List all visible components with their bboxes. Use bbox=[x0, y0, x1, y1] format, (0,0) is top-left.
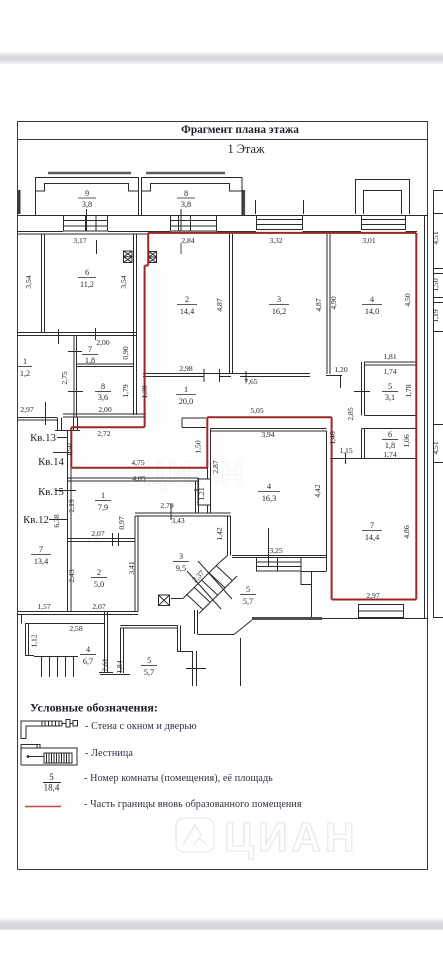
red jog bbox=[145, 265, 149, 267]
rooms 3/4 divider wall bbox=[327, 234, 330, 374]
svg-text:4,90: 4,90 bbox=[329, 296, 338, 309]
room 5 (3,1) top wall bbox=[364, 362, 417, 365]
svg-text:3,01: 3,01 bbox=[362, 236, 375, 245]
entry diagonal bbox=[234, 620, 252, 635]
svg-text:ЦИАН: ЦИАН bbox=[224, 814, 359, 860]
svg-text:4,85: 4,85 bbox=[132, 474, 145, 483]
room 16,3 left wall lower bbox=[208, 505, 211, 513]
svg-text:5,05: 5,05 bbox=[250, 406, 263, 415]
room 5,7 inner wall bbox=[121, 628, 124, 673]
stair top connectors bbox=[220, 556, 228, 563]
svg-text:1,20: 1,20 bbox=[334, 365, 347, 374]
svg-text:0,90: 0,90 bbox=[121, 346, 130, 359]
svg-text:1: 1 bbox=[101, 491, 105, 500]
svg-text:1,74: 1,74 bbox=[383, 450, 396, 459]
tick 2,79 bbox=[170, 504, 172, 520]
ladder 3,25 bbox=[257, 558, 302, 572]
legend wall symbol bbox=[21, 720, 78, 739]
svg-text:Кв.15: Кв.15 bbox=[38, 486, 64, 498]
svg-text:3,8: 3,8 bbox=[181, 200, 191, 209]
dark parapet line bbox=[252, 617, 322, 620]
wall stub right of corridor bbox=[326, 375, 342, 377]
balcony 9 slab dark top line bbox=[48, 172, 131, 174]
corridor step wall bbox=[182, 418, 206, 428]
red bottom edge room 14,4 bbox=[332, 599, 417, 601]
svg-text:5: 5 bbox=[388, 382, 392, 391]
svg-text:7,9: 7,9 bbox=[98, 503, 108, 512]
room 5,7 left wall bbox=[105, 612, 108, 673]
svg-text:3,54: 3,54 bbox=[24, 275, 33, 288]
svg-text:4,50: 4,50 bbox=[403, 293, 412, 306]
svg-text:1,15: 1,15 bbox=[339, 446, 352, 455]
wall y513 bbox=[135, 513, 231, 516]
tick 1,15 at red bbox=[330, 453, 346, 464]
svg-text:1,19: 1,19 bbox=[431, 309, 440, 322]
red vertical x207 bbox=[206, 417, 208, 467]
duct tick bbox=[194, 489, 198, 491]
rooms 2/3 divider wall bbox=[230, 234, 233, 374]
bottom outer wall right bbox=[322, 618, 428, 620]
svg-text:2,07: 2,07 bbox=[91, 529, 104, 538]
red left vertical upper bbox=[147, 233, 149, 266]
stair comb teeth bbox=[42, 657, 74, 678]
svg-text:1,57: 1,57 bbox=[37, 602, 50, 611]
svg-text:3,94: 3,94 bbox=[261, 430, 274, 439]
room 5 bottom wall bbox=[365, 415, 417, 417]
svg-text:4,87: 4,87 bbox=[314, 298, 323, 311]
title separator line bbox=[18, 139, 428, 141]
stair comb top bbox=[34, 656, 78, 658]
svg-text:3,43: 3,43 bbox=[171, 516, 184, 525]
room 2 (5,0) top wall bbox=[68, 539, 136, 542]
svg-text:Кв.12: Кв.12 bbox=[23, 514, 49, 526]
door ticks on wall bbox=[68, 352, 83, 392]
svg-text:3,17: 3,17 bbox=[73, 236, 86, 245]
svg-text:18,4: 18,4 bbox=[44, 783, 60, 793]
watermarks bbox=[142, 455, 359, 860]
svg-text:5: 5 bbox=[147, 656, 151, 665]
room 16,3 top wall bbox=[211, 429, 327, 432]
balcony 8 label tick bbox=[180, 209, 182, 231]
room 6 bottom wall bbox=[18, 333, 137, 336]
svg-text:2,58: 2,58 bbox=[69, 624, 82, 633]
svg-text:2,84: 2,84 bbox=[181, 236, 194, 245]
ladder dim line bbox=[268, 528, 270, 566]
corner stub left bbox=[21, 615, 23, 624]
svg-text:3,8: 3,8 bbox=[82, 200, 92, 209]
svg-text:3: 3 bbox=[277, 295, 281, 304]
legend stairs symbol bbox=[21, 745, 77, 766]
svg-text:1,46: 1,46 bbox=[328, 431, 337, 444]
neighbour ticks bbox=[434, 214, 443, 618]
svg-text:7,65: 7,65 bbox=[244, 377, 257, 386]
svg-text:Кв.14: Кв.14 bbox=[38, 456, 64, 468]
svg-text:3,54: 3,54 bbox=[119, 275, 128, 288]
corridor door ticks bbox=[204, 369, 246, 382]
stair flight side 2 bbox=[199, 576, 237, 614]
room 16,3 right wall bbox=[326, 431, 328, 556]
svg-text:5,0: 5,0 bbox=[94, 580, 104, 589]
room 6 left wall bbox=[42, 234, 45, 332]
svg-text:2,97: 2,97 bbox=[20, 405, 33, 414]
svg-text:1,39: 1,39 bbox=[140, 385, 149, 398]
svg-text:2: 2 bbox=[97, 568, 101, 577]
door tick room 5 left wall bbox=[354, 391, 370, 393]
vent X-box in room 2 bbox=[149, 252, 157, 263]
svg-text:2,61: 2,61 bbox=[101, 658, 110, 671]
svg-text:1,2: 1,2 bbox=[20, 369, 30, 378]
svg-text:5: 5 bbox=[246, 585, 250, 594]
tick under 2,84 bbox=[180, 243, 182, 254]
balcony 9 label tick bbox=[86, 209, 88, 231]
balcony 8 outline bbox=[142, 178, 243, 216]
duct box bbox=[198, 479, 211, 505]
svg-text:4,51: 4,51 bbox=[431, 231, 440, 244]
legend bbox=[21, 701, 302, 811]
svg-text:14,0: 14,0 bbox=[365, 307, 379, 316]
room 16,3 left wall upper bbox=[208, 429, 211, 480]
red vertical x71 bbox=[70, 427, 72, 467]
page frame bbox=[18, 122, 428, 870]
room 1 (7,9) top wall bbox=[68, 478, 199, 481]
porch ladder below red room bbox=[359, 605, 404, 618]
lobby right wall double bbox=[68, 430, 72, 612]
svg-text:- Номер комнаты (помещения), е: - Номер комнаты (помещения), её площадь bbox=[84, 773, 273, 784]
svg-text:ЦИАН: ЦИАН bbox=[142, 455, 247, 491]
svg-text:1,12: 1,12 bbox=[30, 634, 39, 647]
divider rooms 7/8 bbox=[77, 364, 134, 367]
svg-text:13,4: 13,4 bbox=[34, 557, 48, 566]
neighbour stub top bbox=[434, 190, 443, 192]
svg-text:9: 9 bbox=[85, 189, 89, 198]
bottom window cross tick bbox=[186, 668, 206, 670]
legend red line symbol bbox=[25, 806, 61, 808]
svg-text:16,3: 16,3 bbox=[262, 494, 276, 503]
balcony 9 window bay bbox=[64, 215, 108, 231]
balcony 9 parapet stepped line bbox=[36, 184, 139, 192]
svg-text:7: 7 bbox=[39, 545, 43, 554]
svg-text:2,00: 2,00 bbox=[98, 405, 111, 414]
svg-text:3: 3 bbox=[179, 552, 183, 561]
balcony 8 slab dark top line bbox=[146, 172, 225, 174]
svg-text:11,2: 11,2 bbox=[80, 280, 94, 289]
svg-text:2,98: 2,98 bbox=[179, 364, 192, 373]
svg-text:4,75: 4,75 bbox=[131, 458, 144, 467]
stair steps bbox=[187, 566, 233, 610]
svg-text:1,50: 1,50 bbox=[194, 440, 203, 453]
svg-text:- Лестница: - Лестница bbox=[85, 748, 133, 759]
balcony 8 window bay bbox=[171, 215, 217, 231]
wall x229 down to stair bbox=[228, 516, 231, 556]
rooms 2/3 divider (5,0 right wall) bbox=[135, 516, 138, 612]
svg-text:1,84: 1,84 bbox=[115, 660, 124, 673]
svg-text:4,42: 4,42 bbox=[313, 484, 322, 497]
dim tick under 3,17 bbox=[96, 240, 98, 254]
svg-text:4: 4 bbox=[86, 645, 90, 654]
wall end tick bbox=[99, 672, 113, 674]
room 6 (1,8) top wall bbox=[362, 428, 417, 430]
lobby window verticals bbox=[58, 418, 78, 431]
svg-text:1 Этаж: 1 Этаж bbox=[227, 142, 265, 156]
svg-text:2,43: 2,43 bbox=[67, 569, 76, 582]
svg-text:3,32: 3,32 bbox=[269, 236, 282, 245]
svg-text:4,51: 4,51 bbox=[431, 441, 440, 454]
svg-text:1,06: 1,06 bbox=[402, 434, 411, 447]
neighbour wall beyond frame bbox=[433, 190, 435, 618]
wall x177 bbox=[178, 626, 181, 652]
svg-text:4: 4 bbox=[267, 482, 271, 491]
red top edge bbox=[148, 232, 416, 234]
svg-text:9,5: 9,5 bbox=[176, 564, 186, 573]
svg-text:2,00: 2,00 bbox=[96, 338, 109, 347]
red left edge room 14,4 bbox=[331, 417, 333, 599]
balconies bbox=[18, 173, 428, 234]
svg-text:0,97: 0,97 bbox=[117, 516, 126, 529]
svg-text:2,97: 2,97 bbox=[366, 591, 379, 600]
svg-text:Условные обозначения:: Условные обозначения: bbox=[30, 701, 158, 715]
window bay D bbox=[362, 215, 406, 230]
step bbox=[26, 655, 35, 657]
right strip bbox=[425, 190, 443, 618]
tick 1,20 bbox=[340, 375, 342, 388]
svg-text:5,7: 5,7 bbox=[243, 597, 253, 606]
right balcony outline bbox=[356, 180, 410, 215]
balcony 8 right thick bar bbox=[243, 190, 246, 215]
small closet bbox=[301, 572, 312, 585]
rooms 7-8 left wall bbox=[74, 336, 77, 417]
svg-text:1,8: 1,8 bbox=[385, 441, 395, 450]
red boundary bbox=[71, 233, 416, 600]
balcony 9 outline bbox=[36, 178, 139, 216]
svg-text:1,8: 1,8 bbox=[85, 356, 95, 365]
lobby window lower line bbox=[55, 430, 80, 432]
vent X-box in room 6 bbox=[124, 251, 133, 263]
left edge thick window bar bbox=[18, 190, 21, 214]
svg-text:2,72: 2,72 bbox=[97, 429, 110, 438]
svg-text:4: 4 bbox=[370, 295, 374, 304]
room 16,3 bottom wall bbox=[232, 556, 327, 558]
bottom window double vertical bbox=[193, 651, 197, 686]
svg-text:2,87: 2,87 bbox=[211, 460, 220, 473]
svg-text:7: 7 bbox=[370, 521, 374, 530]
red corridor 5,05 edge bbox=[207, 416, 331, 418]
svg-text:4,87: 4,87 bbox=[215, 298, 224, 311]
top outer wall bbox=[18, 215, 428, 217]
svg-text:4,86: 4,86 bbox=[402, 525, 411, 538]
svg-text:Кв.13: Кв.13 bbox=[30, 432, 56, 444]
top grey band bbox=[0, 52, 443, 65]
rooms 5/6 left wall lower bbox=[362, 429, 365, 459]
svg-text:1,42: 1,42 bbox=[215, 527, 224, 540]
red right edge bbox=[415, 233, 417, 600]
svg-text:6: 6 bbox=[388, 430, 392, 439]
main walls bbox=[18, 234, 417, 618]
svg-text:6,38: 6,38 bbox=[52, 514, 61, 527]
svg-text:2,85: 2,85 bbox=[346, 407, 355, 420]
interior post line bbox=[240, 638, 242, 686]
svg-text:2,75: 2,75 bbox=[60, 371, 69, 384]
stair stringer long diagonals bbox=[187, 561, 232, 609]
rooms 5/6 left wall upper bbox=[362, 362, 365, 416]
bottom grey band bbox=[0, 918, 443, 931]
svg-text:14,4: 14,4 bbox=[365, 533, 379, 542]
svg-text:3,41: 3,41 bbox=[127, 561, 136, 574]
wall y651 bbox=[177, 651, 193, 653]
bottom small wall bbox=[100, 674, 130, 676]
kv leader lines bbox=[49, 438, 76, 520]
window reveal stubs bbox=[256, 200, 304, 214]
svg-text:20,0: 20,0 bbox=[179, 397, 193, 406]
svg-text:2: 2 bbox=[185, 295, 189, 304]
wall to flight bbox=[171, 598, 183, 600]
svg-text:1,79: 1,79 bbox=[121, 384, 130, 397]
svg-text:6: 6 bbox=[85, 268, 89, 277]
bottom wall y612 bbox=[18, 612, 139, 615]
svg-text:7: 7 bbox=[88, 345, 92, 354]
svg-text:14,4: 14,4 bbox=[180, 307, 194, 316]
svg-text:5: 5 bbox=[49, 772, 54, 782]
rooms 7-8 bottom wall bbox=[63, 414, 146, 417]
window bay C bbox=[257, 215, 303, 230]
svg-text:1,81: 1,81 bbox=[383, 352, 396, 361]
svg-text:16,2: 16,2 bbox=[272, 307, 286, 316]
svg-text:1,50: 1,50 bbox=[431, 278, 440, 291]
svg-text:2,07: 2,07 bbox=[92, 602, 105, 611]
room 6,7 left wall bbox=[26, 624, 29, 657]
svg-text:1: 1 bbox=[23, 357, 27, 366]
wall y625 bbox=[121, 626, 178, 629]
right balcony inner bbox=[364, 191, 402, 215]
svg-text:1,74: 1,74 bbox=[383, 367, 396, 376]
door tick room6 bottom bbox=[59, 328, 96, 344]
svg-text:1,21: 1,21 bbox=[197, 487, 206, 500]
room 6,7 top wall bbox=[25, 623, 105, 625]
balcony 8 parapet stepped line bbox=[142, 184, 243, 192]
room 6 right wall / rooms 7-8 right wall bbox=[134, 234, 137, 415]
svg-text:5,7: 5,7 bbox=[144, 668, 154, 677]
svg-text:- Стена с окном и дверью: - Стена с окном и дверью bbox=[85, 721, 197, 732]
top wall of rooms (left of red) bbox=[18, 233, 149, 235]
stair flight side 1 bbox=[183, 562, 220, 599]
svg-text:8: 8 bbox=[101, 382, 105, 391]
lobby bottom wall left bbox=[18, 418, 58, 421]
svg-text:8: 8 bbox=[184, 189, 188, 198]
svg-text:1,50: 1,50 bbox=[65, 443, 74, 456]
red 2,72 edge bbox=[71, 426, 144, 428]
bottom watermark logo bbox=[176, 818, 214, 852]
svg-text:3,25: 3,25 bbox=[269, 546, 282, 555]
svg-text:3,1: 3,1 bbox=[385, 393, 395, 402]
svg-text:6,7: 6,7 bbox=[83, 657, 93, 666]
dim tick 2,97 bbox=[45, 402, 47, 425]
svg-text:2,19: 2,19 bbox=[67, 499, 76, 512]
wall right of ladder step bbox=[301, 556, 327, 572]
door ticks on 5,0 top wall bbox=[113, 533, 119, 546]
svg-text:- Часть границы вновь образова: - Часть границы вновь образованного поме… bbox=[84, 799, 302, 810]
red left vertical lower bbox=[144, 266, 146, 428]
corridor top wall bbox=[143, 374, 310, 377]
entry wall horizontal bbox=[198, 634, 235, 636]
window X-box near stair bbox=[159, 595, 170, 606]
entry wall vertical bbox=[195, 610, 198, 634]
inner wall line segments between bays bbox=[18, 231, 418, 233]
closet right wall down bbox=[311, 585, 313, 619]
plan right wall bbox=[424, 216, 426, 619]
svg-text:1,78: 1,78 bbox=[404, 384, 413, 397]
bottom section bbox=[22, 556, 428, 687]
red 4,75 edge bbox=[71, 467, 207, 469]
room 1 right wall bbox=[196, 478, 199, 513]
svg-text:Фрагмент плана этажа: Фрагмент плана этажа bbox=[181, 124, 299, 136]
room 6 (1,8) bottom wall bbox=[345, 458, 417, 460]
svg-text:2,79: 2,79 bbox=[160, 501, 173, 510]
svg-text:1: 1 bbox=[184, 385, 188, 394]
svg-text:3,6: 3,6 bbox=[98, 393, 108, 402]
